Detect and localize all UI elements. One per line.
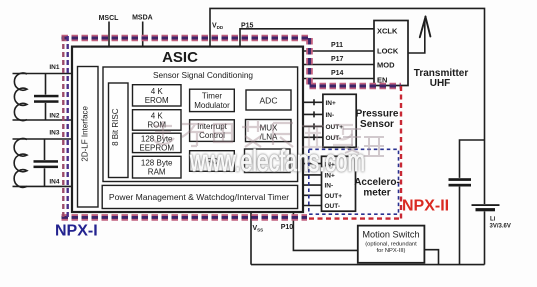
boundary NPX combined outer rim dashed (pink)	[62, 38, 402, 217]
wire P15 to XCLK	[240, 29, 374, 47]
svg-text:(optional, redundant: (optional, redundant	[365, 242, 417, 248]
wire motion switch to bottom bus	[424, 250, 438, 265]
block aux (under watermark)	[245, 149, 291, 173]
block 4K ROM	[133, 110, 182, 131]
svg-text:Sensor: Sensor	[360, 119, 394, 130]
svg-text:www.elecfans.com: www.elecfans.com	[189, 143, 365, 178]
wire pressure sensor pins	[303, 102, 323, 137]
svg-text:P10: P10	[281, 224, 294, 231]
svg-text:IN3: IN3	[49, 130, 60, 137]
wire accelerometer pins	[303, 164, 322, 206]
transmitter interface box XCLK/LOCK/MOD/EN	[374, 21, 408, 86]
svg-text:P11: P11	[331, 42, 343, 49]
block 128 Byte RAM	[133, 156, 182, 178]
capacitor tank2 plates	[34, 160, 59, 163]
inductor L2	[14, 139, 27, 188]
svg-text:MUX: MUX	[260, 124, 278, 133]
wire capacitor branch	[460, 140, 485, 265]
wire Vdd top loop	[210, 8, 485, 204]
block 4K EROM	[133, 85, 182, 106]
svg-text:Accelero-: Accelero-	[354, 177, 400, 188]
wire P11 to LOCK	[303, 50, 374, 52]
wire antenna feed	[408, 19, 425, 54]
wire P10 to motion switch	[293, 212, 357, 250]
svg-text:8 Bit RISC: 8 Bit RISC	[111, 108, 120, 146]
svg-text:3V/3.6V: 3V/3.6V	[490, 224, 511, 230]
svg-text:Pressure: Pressure	[356, 109, 399, 120]
block RC	[190, 151, 235, 172]
svg-text:XCLK: XCLK	[377, 27, 398, 36]
wire Vss down	[250, 212, 252, 265]
capacitor tank1 stem top	[45, 74, 47, 95]
svg-text:IN-: IN-	[325, 183, 334, 190]
svg-text:IN1: IN1	[49, 64, 60, 71]
svg-text:P14: P14	[331, 70, 344, 77]
svg-text:IN+: IN+	[326, 100, 337, 107]
svg-text:2D-LF Interface: 2D-LF Interface	[81, 105, 90, 161]
svg-text:OUT+: OUT+	[325, 193, 343, 200]
svg-text:Sensor Signal Conditioning: Sensor Signal Conditioning	[153, 70, 253, 80]
capacitor C1 (right) plate top	[449, 178, 472, 181]
svg-text:LOCK: LOCK	[377, 46, 399, 55]
block Interrupt Control	[190, 120, 235, 142]
coil L1 tank1 top rail	[13, 73, 73, 75]
battery Li plate long	[472, 204, 500, 206]
svg-text:128 Byte: 128 Byte	[141, 158, 173, 167]
svg-text:MSDA: MSDA	[132, 15, 153, 22]
svg-text:Timer: Timer	[202, 92, 222, 101]
pressure sensor box	[323, 94, 356, 147]
block Power Management	[102, 185, 297, 208]
battery Li plate short	[476, 208, 496, 211]
svg-text:NPX-II: NPX-II	[402, 198, 449, 215]
block Sensor Signal Conditioning	[103, 67, 298, 182]
antenna arrowhead (open)	[420, 17, 431, 38]
svg-text:4 K: 4 K	[151, 87, 164, 96]
pin ticks pressure	[313, 99, 315, 140]
boundary accelerometer blue dashed box	[309, 149, 399, 214]
capacitor tank1 plates	[34, 95, 59, 98]
svg-text:IN4: IN4	[49, 179, 60, 186]
svg-text:NPX-I: NPX-I	[55, 223, 98, 240]
svg-text:IN2: IN2	[49, 113, 60, 120]
svg-text:OUT-: OUT-	[325, 203, 341, 210]
svg-text:MSCL: MSCL	[99, 15, 120, 22]
coil L1 tank1 bottom rail	[13, 119, 73, 121]
block ADC	[246, 90, 291, 110]
block 8 Bit RISC	[109, 83, 129, 178]
wire MSCL	[108, 22, 110, 47]
block 128 Byte EEPROM	[133, 133, 182, 152]
wire bottom bus	[251, 264, 485, 266]
svg-text:MOD: MOD	[377, 60, 395, 69]
svg-text:meter: meter	[363, 187, 390, 198]
svg-text:EROM: EROM	[145, 96, 169, 105]
inductor L1	[14, 73, 27, 121]
coil L2 tank2 bottom rail	[13, 185, 73, 187]
svg-text:IN-: IN-	[326, 112, 335, 119]
coil L2 tank2 top rail	[13, 138, 73, 140]
svg-text:ADC: ADC	[260, 95, 278, 105]
block MUX LNA	[246, 120, 292, 142]
capacitor tank2 stem top	[44, 139, 46, 160]
capacitor C1 (right) plate bottom	[449, 184, 472, 187]
accelerometer box	[322, 156, 356, 211]
svg-text:UHF: UHF	[430, 78, 451, 89]
boundary NPX-II right red dashed	[400, 86, 402, 220]
svg-text:EEPROM: EEPROM	[139, 143, 174, 152]
capacitor tank2 stem bottom	[44, 168, 46, 186]
wire P14 to EN	[303, 78, 374, 80]
svg-text:Motion Switch: Motion Switch	[362, 229, 419, 239]
svg-text:P15: P15	[241, 23, 254, 30]
wire Vdd bottom from battery to bus	[484, 211, 486, 264]
block Timer Modulator	[190, 89, 235, 111]
wire P17 to MOD	[303, 64, 374, 66]
svg-text:P17: P17	[331, 56, 344, 63]
watermark chinese characters (drawn as vector glyph shapes)	[153, 121, 384, 156]
svg-text:Power Management & Watchdog/In: Power Management & Watchdog/Interval Tim…	[109, 192, 289, 202]
svg-text:ASIC: ASIC	[162, 49, 198, 66]
capacitor tank1 stem bottom	[45, 103, 47, 120]
motion switch box	[358, 226, 425, 263]
svg-text:RAM: RAM	[148, 168, 166, 177]
svg-text:Li: Li	[490, 217, 496, 223]
svg-text:4 K: 4 K	[151, 111, 164, 120]
block 2D-LF Interface	[78, 67, 99, 208]
svg-text:for NPX-III): for NPX-III)	[377, 248, 406, 254]
ASIC U1 outer box	[72, 47, 303, 212]
svg-text:Modulator: Modulator	[194, 101, 230, 110]
boundary NPX combined core dashed (dark indigo)	[62, 38, 402, 217]
boundary NPX-II bottom-right red dashed	[309, 217, 403, 219]
wire MSDA	[142, 22, 144, 47]
boundary NPX left dashed (two columns)	[62, 36, 64, 218]
